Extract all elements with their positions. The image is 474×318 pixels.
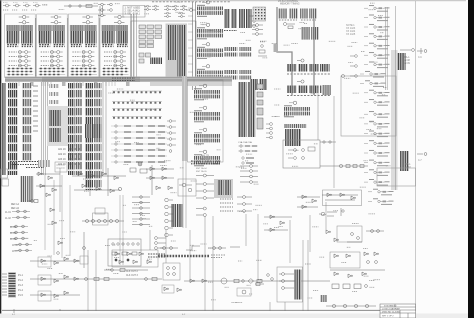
svg-text:MA-1: MA-1: [404, 56, 410, 59]
svg-text:SYSTEM BD: SYSTEM BD: [384, 306, 397, 308]
svg-text:MB-1: MB-1: [405, 164, 411, 166]
svg-text:RST 2A 05: RST 2A 05: [196, 170, 207, 173]
svg-text:MEMORY TIMING: MEMORY TIMING: [280, 2, 300, 5]
svg-text:A04 1K: A04 1K: [58, 163, 66, 166]
svg-text:DWG NO 12-3456: DWG NO 12-3456: [382, 312, 401, 314]
svg-text:J1-04: J1-04: [10, 233, 16, 235]
svg-text:CLK OUT 3: CLK OUT 3: [126, 275, 139, 277]
svg-text:XX 1425: XX 1425: [346, 33, 356, 36]
svg-text:J1-02: J1-02: [5, 218, 11, 220]
svg-text:SHT 1 OF 2: SHT 1 OF 2: [382, 316, 394, 318]
svg-text:REF 1A: REF 1A: [11, 203, 20, 206]
svg-text:J1-01: J1-01: [5, 212, 11, 214]
svg-text:C1A C2A C3A: C1A C2A C3A: [238, 141, 252, 144]
svg-text:P1-2: P1-2: [18, 280, 24, 282]
svg-text:3. SEL-B (4L): 3. SEL-B (4L): [125, 13, 140, 16]
svg-text:J1-06: J1-06: [12, 245, 18, 247]
svg-text:RST 1A 04: RST 1A 04: [196, 167, 207, 170]
svg-text:J2-08: J2-08: [404, 60, 410, 62]
svg-text:B04 771: B04 771: [201, 155, 210, 157]
svg-text:A02 1K: A02 1K: [58, 153, 66, 156]
svg-text:J1-05: J1-05: [10, 239, 16, 241]
svg-text:CLK OUT 2: CLK OUT 2: [126, 271, 139, 273]
svg-text:LOGIC DIAGRAM: LOGIC DIAGRAM: [382, 308, 400, 311]
svg-text:REF 2A: REF 2A: [11, 207, 20, 210]
svg-text:P1-1: P1-1: [18, 275, 24, 277]
svg-text:A01 1K: A01 1K: [58, 148, 66, 151]
svg-text:J1-07: J1-07: [12, 251, 18, 253]
svg-text:A03 1K: A03 1K: [58, 158, 66, 161]
svg-text:J2-09: J2-09: [404, 63, 410, 65]
svg-text:J1-03: J1-03: [10, 227, 16, 229]
svg-text:P1-4: P1-4: [18, 290, 24, 292]
svg-text:P1-5: P1-5: [18, 295, 24, 297]
svg-text:P1-3: P1-3: [18, 285, 24, 287]
